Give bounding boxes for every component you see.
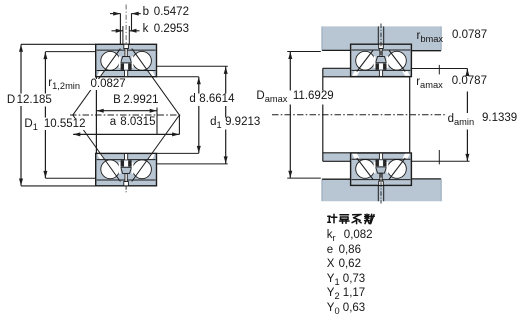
dim k leader right xyxy=(130,30,140,32)
housing section bottom xyxy=(322,179,441,201)
table value 0,62 xyxy=(339,259,361,270)
contact diagonal lower-right ball xyxy=(389,158,405,179)
dim line d seg1 xyxy=(198,77,200,94)
value D xyxy=(17,95,52,106)
hole centerline top xyxy=(380,24,382,57)
value a xyxy=(120,117,155,128)
ext line Damax bottom xyxy=(287,177,321,179)
dim line D1 seg2 xyxy=(44,107,46,118)
lube hole wall right bottom xyxy=(383,185,385,201)
housing section top xyxy=(322,26,441,50)
label B xyxy=(113,95,121,106)
ext line k right xyxy=(128,26,130,44)
shaft surface bottom xyxy=(323,152,410,154)
ext line d top xyxy=(157,76,199,78)
ext line D bottom xyxy=(21,185,96,187)
lube hole wall right xyxy=(383,26,385,44)
housing shoulder left profile xyxy=(322,44,351,50)
value d1 xyxy=(225,117,260,128)
dim line D1 seg3 xyxy=(44,130,46,179)
ext line d1 bottom xyxy=(157,163,228,165)
shaft surface top xyxy=(323,76,410,78)
wire: apex to a-line xyxy=(178,115,180,134)
label d1 xyxy=(210,117,222,131)
contact diagonal upper-right ball xyxy=(389,50,405,71)
value k xyxy=(154,24,189,35)
dim line d1 seg1 xyxy=(225,67,227,94)
label damin xyxy=(448,114,475,128)
housing left edge xyxy=(321,26,323,50)
table label Y2 xyxy=(327,288,340,302)
shaft shoulder top xyxy=(323,68,351,77)
housing shoulder left profile bottom xyxy=(322,179,351,185)
shaft end face / bearing right faces xyxy=(409,44,411,185)
lube hole wall left bottom xyxy=(377,185,379,201)
wire: left face extension xyxy=(95,77,97,154)
value ramax xyxy=(452,76,487,87)
dim line B xyxy=(96,110,157,112)
ext line D1 top xyxy=(45,51,95,53)
tick top xyxy=(438,65,440,75)
table value 0,082 xyxy=(344,230,373,241)
label d xyxy=(189,94,195,105)
dim line damin lower xyxy=(466,130,468,162)
axis centerline (right view) xyxy=(272,114,445,116)
contact diagonal lower-left ball xyxy=(357,158,373,179)
table value 0,63 xyxy=(343,303,365,314)
ext line da top xyxy=(411,68,468,70)
table label Y1 xyxy=(327,274,340,288)
mounted bearing upper row xyxy=(351,44,412,76)
ext line Damax top xyxy=(287,51,321,53)
housing shoulder right profile bottom xyxy=(410,179,442,186)
dim line a xyxy=(73,133,179,135)
label a xyxy=(110,117,116,128)
groove centerline bottom stub xyxy=(125,186,127,193)
dim line damin upper xyxy=(466,92,468,114)
table label kr xyxy=(327,230,336,244)
housing shoulder right profile xyxy=(410,44,442,51)
dim b leader left xyxy=(110,13,120,15)
ext line da bottom xyxy=(411,160,470,162)
table value 0,73 xyxy=(343,274,365,285)
dim line d1 seg3 xyxy=(225,130,227,164)
label k xyxy=(143,24,149,35)
ext line b right xyxy=(131,13,133,31)
tick bottom xyxy=(438,150,440,164)
groove centerline top xyxy=(125,5,127,45)
label Damax xyxy=(256,91,287,105)
housing right edge xyxy=(440,26,442,50)
label D1 xyxy=(24,119,37,133)
ext line D top xyxy=(21,43,96,45)
value b xyxy=(154,7,189,18)
value B xyxy=(123,95,158,106)
ext line D1 bottom xyxy=(45,177,95,179)
dim line d1 seg2 xyxy=(225,106,227,118)
housing right edge bottom xyxy=(440,179,442,201)
table header 计算系数 (drawn strokes) xyxy=(328,214,374,224)
ext line d bottom xyxy=(157,152,199,154)
label D xyxy=(7,95,15,106)
label r12min xyxy=(48,78,80,92)
shaft shoulder bottom xyxy=(323,153,351,162)
shaft shoulder face upper xyxy=(322,68,324,90)
value D1 xyxy=(42,119,88,130)
outer+inner ring section, lower row (mirrored) xyxy=(96,153,157,185)
table value 1,17 xyxy=(343,288,365,299)
outer+inner ring section, upper row xyxy=(96,44,157,76)
dim k leader left xyxy=(112,30,123,32)
ext line b left xyxy=(119,13,121,44)
label ramax xyxy=(416,77,443,91)
right view: mounted bearing with shaft and housing xyxy=(272,24,470,204)
shoulder top line xyxy=(323,67,351,69)
value rbmax xyxy=(452,30,487,41)
table value 0,86 xyxy=(339,245,361,256)
label b xyxy=(143,7,149,18)
mounted bearing lower row (mirrored) xyxy=(351,153,412,185)
dim line D1 seg1 xyxy=(44,52,46,94)
lube hole wall left xyxy=(377,26,379,44)
dim line Damax lower xyxy=(289,105,291,179)
contact diagonal upper-left ball xyxy=(357,50,373,71)
dim line D lower xyxy=(20,106,22,186)
dim line damin stem xyxy=(466,69,468,75)
value d xyxy=(199,94,234,105)
ext line k left xyxy=(122,26,124,44)
table label Y0 xyxy=(327,303,340,317)
dim line d seg2 xyxy=(198,106,200,153)
housing left edge bottom xyxy=(321,179,323,201)
dim line Damax upper xyxy=(289,52,291,91)
table label e xyxy=(327,245,333,256)
contact lines left (apex on axis) xyxy=(73,49,121,182)
hole centerline bottom xyxy=(380,173,382,203)
dim line D upper xyxy=(20,45,22,94)
left view: bearing cross-section xyxy=(19,5,228,193)
dim b leader right xyxy=(132,13,141,15)
contact lines right (apex on axis) xyxy=(132,49,180,182)
wire: B extension right xyxy=(156,108,158,135)
shoulder bottom line xyxy=(323,160,351,162)
axis centerline (left view) xyxy=(70,114,183,116)
ext line d1 top xyxy=(157,65,228,67)
label rbmax xyxy=(417,31,444,45)
table label X xyxy=(327,259,335,270)
value damin xyxy=(482,113,517,124)
shaft shoulder face lower xyxy=(322,105,324,162)
value Damax xyxy=(293,91,334,102)
value r12min xyxy=(89,79,128,90)
